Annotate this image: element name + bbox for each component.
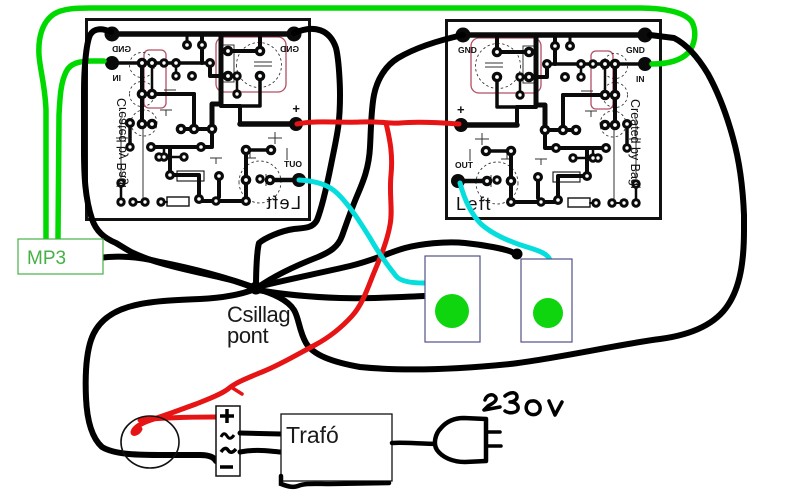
cyan wire right OUT to speaker 2 xyxy=(460,183,550,268)
right amplifier PCB artwork xyxy=(445,19,662,219)
black wire trafo to plug cord xyxy=(392,443,438,444)
black wire trafo bottom squiggle xyxy=(281,476,389,487)
green wire MP3 to right board IN (top loop) xyxy=(39,8,695,238)
MP3 box xyxy=(18,239,103,274)
handwritten 230V: digit 3 xyxy=(505,393,518,413)
red wire tick near rectifier xyxy=(231,387,242,394)
cyan wire left OUT to speaker 1 xyxy=(299,180,424,283)
handwritten 230V: digit 2 xyxy=(484,395,500,410)
rectifier box xyxy=(216,406,240,476)
black wire left board GND down left side to star point xyxy=(84,29,256,288)
green wire MP3 to left board IN xyxy=(58,61,104,238)
black wire star point to rectifier (left loop) xyxy=(86,289,255,461)
left amplifier PCB (mirrored artwork) xyxy=(95,18,312,218)
left amplifier PCB white base xyxy=(85,18,311,220)
star point junction blob xyxy=(250,282,263,295)
rectifier ac symbol 2 xyxy=(221,448,236,452)
black wire MP3 to star point xyxy=(98,257,252,287)
speaker 2 cone xyxy=(533,298,563,328)
red wire branch down to rectifier xyxy=(133,123,392,433)
speaker 2 terminal blob xyxy=(512,249,523,260)
red wire left + to right + xyxy=(297,122,459,124)
rectifier minus symbol xyxy=(220,465,233,469)
handwritten 230V: letter V xyxy=(549,401,562,415)
speaker 1 box xyxy=(425,256,480,342)
black wire left board right GND down to star point xyxy=(256,29,340,287)
svg-text:pont: pont xyxy=(227,323,269,348)
right amplifier PCB board edge xyxy=(447,21,661,219)
black wire rectifier to trafo 1 xyxy=(240,433,281,434)
black wire rectifier to trafo 2 xyxy=(240,450,281,452)
Trafo box xyxy=(281,414,392,481)
speaker 1 cone xyxy=(435,294,469,328)
svg-text:Trafó: Trafó xyxy=(286,422,339,448)
handwritten 230V: digit 0 xyxy=(526,401,540,415)
left amplifier PCB board edge xyxy=(87,20,310,220)
black wire star point bottom sweep up right side to right GND xyxy=(257,35,744,369)
black wire right board GND down to star point xyxy=(257,35,463,288)
plug prong 1 xyxy=(487,430,500,434)
rectifier plus symbol xyxy=(220,409,234,423)
mains plug body xyxy=(435,418,486,462)
red wire into rectifier plus xyxy=(140,417,215,420)
black wire star point to speaker 1 xyxy=(258,290,424,298)
speaker 2 box xyxy=(521,259,572,342)
svg-text:MP3: MP3 xyxy=(27,248,66,269)
black wire star point to speaker 2 terminal blob xyxy=(257,242,512,287)
plug prong 2 xyxy=(487,444,501,448)
rectifier ac symbol 1 xyxy=(221,434,234,439)
transformer circle xyxy=(121,416,179,468)
